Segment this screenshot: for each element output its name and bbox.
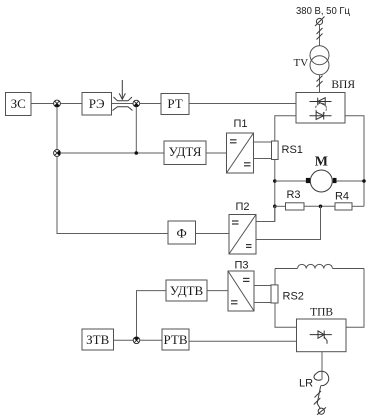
thyristor VS3 <box>310 331 332 344</box>
wire R3 to R4 <box>304 205 335 207</box>
wire П2 to Ф <box>196 233 230 235</box>
converter ТПВ (field thyristor converter) <box>297 319 347 352</box>
svg-text:Ф: Ф <box>177 226 187 241</box>
shunt RS1 <box>272 141 279 160</box>
block УДТВ (field current sensor) <box>166 280 207 301</box>
wire junction B to РТ <box>140 103 161 105</box>
wire junction C to УДТЯ <box>60 152 164 154</box>
wire R4 to right bus <box>352 205 364 207</box>
ground terminal <box>317 407 326 414</box>
dashed reversing arcs <box>316 103 327 114</box>
junction dot H <box>319 205 323 209</box>
svg-text:П2: П2 <box>235 201 249 213</box>
svg-text:П1: П1 <box>233 118 247 130</box>
summing junction C <box>54 150 61 157</box>
svg-text:RS2: RS2 <box>283 291 304 303</box>
resistor R4 <box>335 203 352 210</box>
svg-text:РТВ: РТВ <box>163 332 187 347</box>
svg-text:LR: LR <box>299 378 313 390</box>
svg-text:М: М <box>315 155 328 170</box>
summing junction B <box>133 100 140 107</box>
thyristor VS1 (top, pointing left) <box>310 98 332 106</box>
wire УДТВ to junction K <box>137 291 167 337</box>
wire bus junction A down to junction C <box>56 107 58 150</box>
wire junction H down to П2 bottom input <box>256 206 321 239</box>
arrow into gap element <box>119 80 125 99</box>
wire ВПЯ right output <box>345 116 364 207</box>
wire junction B down to current feedback line <box>135 107 137 153</box>
summing junction A <box>54 100 61 107</box>
wire LR down with break marks <box>314 386 321 408</box>
svg-text:RS1: RS1 <box>282 144 303 156</box>
summing junction K <box>133 337 140 344</box>
converter ВПЯ (armature thyristor converter) <box>296 93 345 124</box>
wires П1 to shunt RS1 <box>254 141 272 143</box>
block РТВ (field current regulator) <box>162 329 189 350</box>
field winding loop left branch <box>274 269 276 285</box>
block ЗТВ (field setpoint) <box>82 329 114 350</box>
svg-text:ЗТВ: ЗТВ <box>86 332 109 347</box>
svg-text:УДТВ: УДТВ <box>170 283 204 298</box>
wire through gap element <box>112 103 134 105</box>
wire УДТЯ to П1 <box>206 152 227 154</box>
junction dot E <box>273 179 277 183</box>
converter П3 <box>228 271 254 311</box>
wire motor right brush to right bus <box>337 180 365 182</box>
transformer TV <box>310 46 329 75</box>
svg-text:380 В, 50 Гц: 380 В, 50 Гц <box>296 5 350 17</box>
wire Ф to junction C bus <box>57 156 168 233</box>
break marks lower <box>317 76 323 88</box>
wire РТВ to ТПВ <box>189 340 297 342</box>
wire RS1 to motor line <box>274 160 276 222</box>
supply terminal <box>315 17 325 27</box>
block УДТЯ (armature current sensor) <box>164 141 206 165</box>
wire РТ to ВПЯ <box>189 103 296 105</box>
svg-text:УДТЯ: УДТЯ <box>169 144 202 159</box>
field winding OV <box>275 264 364 268</box>
svg-text:РЭ: РЭ <box>89 96 105 111</box>
wire terminal to TV <box>319 25 321 46</box>
shunt RS2 <box>271 285 278 303</box>
wire ЗТВ to junction K <box>114 339 134 341</box>
block РЭ (relay element) <box>82 93 112 116</box>
wire to R3 <box>275 205 286 207</box>
svg-text:R3: R3 <box>286 189 300 201</box>
junction dot F <box>362 179 366 183</box>
block ЗС (setpoint) <box>6 93 32 116</box>
field loop right branch <box>346 269 364 328</box>
wire УДТВ to П3 <box>207 290 228 292</box>
wires П3 to shunt RS2 <box>254 285 271 287</box>
resistor R3 <box>286 203 305 210</box>
thyristor VS2 (bottom, pointing right) <box>310 112 332 120</box>
junction dot G <box>273 205 277 209</box>
wire ТПВ to reactor LR <box>321 352 323 380</box>
svg-text:РТ: РТ <box>167 96 182 111</box>
reactor LR loop <box>314 371 329 385</box>
wire to motor left brush <box>275 180 306 182</box>
wire armature branch to П2 top input <box>256 206 275 221</box>
block РТ (current regulator) <box>161 94 189 115</box>
wire junction A to РЭ <box>60 103 82 105</box>
converter П1 <box>227 133 254 173</box>
converter П2 <box>229 215 256 255</box>
svg-text:TV: TV <box>294 57 309 69</box>
wire ЗС to junction A <box>31 103 54 105</box>
wire ВПЯ left to RS1 branch <box>275 116 296 141</box>
wire TV to ВПЯ <box>319 75 321 93</box>
svg-text:П3: П3 <box>234 259 248 271</box>
svg-text:ТПВ: ТПВ <box>310 306 333 318</box>
svg-text:ВПЯ: ВПЯ <box>331 79 355 91</box>
block Ф (filter) <box>168 221 196 244</box>
gap (backlash) element <box>113 97 133 111</box>
wire RS2 to ТПВ <box>275 303 297 327</box>
junction dot D <box>135 151 139 155</box>
break marks upper <box>317 28 323 40</box>
svg-text:ЗС: ЗС <box>11 96 26 111</box>
motor M <box>306 170 337 192</box>
svg-text:R4: R4 <box>335 191 349 203</box>
wire junction K to РТВ <box>140 339 162 341</box>
